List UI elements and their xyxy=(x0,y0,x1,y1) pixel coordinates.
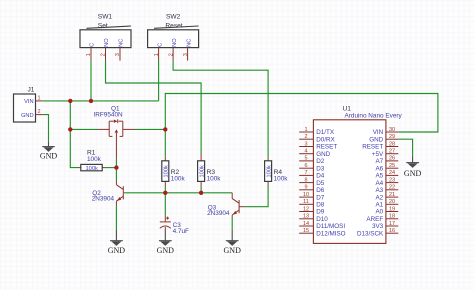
wire rail junction down to C3 xyxy=(164,193,166,215)
svg-text:Reset: Reset xyxy=(165,22,182,29)
svg-text:D12/MISO: D12/MISO xyxy=(316,230,345,237)
IC U1 Arduino Nano Every xyxy=(313,105,402,243)
svg-text:SW2: SW2 xyxy=(166,14,181,21)
svg-text:D9: D9 xyxy=(316,209,325,216)
svg-text:SW1: SW1 xyxy=(98,14,113,21)
svg-text:A5: A5 xyxy=(375,173,383,180)
svg-text:C: C xyxy=(90,43,96,47)
junction rail / R2 bottom / C3 xyxy=(163,191,167,195)
wire R2 bottom to rail xyxy=(164,187,166,193)
svg-text:1: 1 xyxy=(304,127,307,133)
svg-text:21: 21 xyxy=(389,192,395,198)
svg-text:16: 16 xyxy=(389,228,395,234)
svg-text:GND: GND xyxy=(108,246,126,255)
svg-text:2: 2 xyxy=(168,53,174,56)
junction R1 right / Q1 gate / Q2 collector xyxy=(114,165,118,169)
svg-text:26: 26 xyxy=(389,156,395,162)
wire J1 GND pin to ground xyxy=(43,115,49,142)
svg-text:23: 23 xyxy=(389,177,395,183)
svg-text:D2: D2 xyxy=(316,158,325,165)
svg-text:D10: D10 xyxy=(316,216,328,223)
switch SW2 xyxy=(148,14,199,48)
wire VIN rail junction down to Q1 source node xyxy=(69,101,71,129)
wire R4 bottom left to Q3 base xyxy=(245,187,269,207)
svg-text:C: C xyxy=(157,43,163,47)
svg-text:100k: 100k xyxy=(266,165,272,177)
U1 right pins 30-16 xyxy=(357,127,398,238)
wire VIN rail from J1 pin1 to SW2 pin1 drop xyxy=(43,100,159,102)
SW1 pin 3 xyxy=(115,48,121,61)
svg-text:D13/SCK: D13/SCK xyxy=(357,230,384,237)
svg-text:NO: NO xyxy=(104,38,110,47)
svg-text:4: 4 xyxy=(304,149,307,155)
wire R1 right to gate node xyxy=(105,167,117,169)
J1 pin 2 xyxy=(36,109,43,115)
resistor R2 100k xyxy=(162,157,186,187)
svg-text:22: 22 xyxy=(389,185,395,191)
svg-text:5: 5 xyxy=(304,156,307,162)
junction Q1 source / R1 branch xyxy=(68,127,72,131)
svg-text:100k: 100k xyxy=(199,165,205,177)
svg-text:A7: A7 xyxy=(375,158,383,165)
wire Q2 emitter to ground xyxy=(115,206,117,230)
svg-text:100k: 100k xyxy=(207,175,222,182)
svg-text:12: 12 xyxy=(303,206,309,212)
svg-text:VIN: VIN xyxy=(373,129,384,136)
svg-text:2N3904: 2N3904 xyxy=(92,196,115,203)
svg-text:NC: NC xyxy=(186,39,192,47)
SW2 pin 1 xyxy=(154,48,160,61)
svg-text:3: 3 xyxy=(115,53,121,56)
svg-text:D3: D3 xyxy=(316,165,325,172)
svg-text:8: 8 xyxy=(304,177,307,183)
svg-text:D6: D6 xyxy=(316,187,325,194)
SW1 pin 1 xyxy=(86,48,92,61)
SW2 pin 2 xyxy=(168,48,174,61)
transistor Q2 2N3904 xyxy=(92,181,124,206)
svg-text:100k: 100k xyxy=(164,165,170,177)
transistor Q3 2N3904 xyxy=(207,193,244,217)
wire Q3 emitter to ground xyxy=(231,217,233,230)
ground GND at J1 xyxy=(40,142,58,161)
svg-text:20: 20 xyxy=(389,199,395,205)
svg-text:J1: J1 xyxy=(28,87,35,94)
svg-text:29: 29 xyxy=(389,134,395,140)
svg-text:AREF: AREF xyxy=(366,216,383,223)
svg-text:D7: D7 xyxy=(316,194,325,201)
wire base rail Q2 to Q3 collector xyxy=(124,192,232,194)
svg-text:A0: A0 xyxy=(375,209,383,216)
svg-text:3: 3 xyxy=(304,141,307,147)
svg-text:VIN: VIN xyxy=(24,99,33,105)
svg-text:4.7uF: 4.7uF xyxy=(173,228,189,235)
ground GND at Q2 emitter xyxy=(108,230,126,255)
ground GND at C3 xyxy=(157,230,175,255)
svg-text:NO: NO xyxy=(172,38,178,47)
resistor R4 100k xyxy=(265,157,289,186)
svg-text:GND: GND xyxy=(224,246,242,255)
wire U1 GND pin 29 to ground xyxy=(398,139,412,156)
svg-text:D8: D8 xyxy=(316,202,325,209)
svg-text:28: 28 xyxy=(389,141,395,147)
svg-text:100k: 100k xyxy=(87,156,102,163)
svg-text:IRF9540N: IRF9540N xyxy=(94,112,124,119)
svg-text:14: 14 xyxy=(303,221,309,227)
svg-text:2N3904: 2N3904 xyxy=(207,210,230,217)
svg-text:A1: A1 xyxy=(375,202,383,209)
svg-text:100k: 100k xyxy=(86,166,98,172)
SW2 pin 3 xyxy=(183,48,189,61)
svg-text:Arduino Nano Every: Arduino Nano Every xyxy=(345,113,403,120)
svg-text:6: 6 xyxy=(304,163,307,169)
svg-text:D4: D4 xyxy=(316,173,325,180)
wire R2 top node up and right to U1 VIN pin 30 xyxy=(165,94,438,157)
junction VIN rail / SW1 pin1 xyxy=(89,99,93,103)
svg-text:25: 25 xyxy=(389,163,395,169)
svg-text:15: 15 xyxy=(303,228,309,234)
svg-text:GND: GND xyxy=(21,113,34,119)
ground GND at Q3 emitter xyxy=(224,230,242,255)
svg-text:D5: D5 xyxy=(316,180,325,187)
svg-text:Set: Set xyxy=(98,22,108,29)
svg-text:RESET: RESET xyxy=(316,144,337,151)
wire Q1 source node to R1 left xyxy=(70,128,98,130)
ground GND at U1 pin 29 xyxy=(404,156,422,178)
svg-text:100k: 100k xyxy=(171,175,186,182)
wire Q1 right to R2 top node xyxy=(135,128,165,130)
connector J1 xyxy=(14,87,36,123)
svg-text:GND: GND xyxy=(404,169,422,178)
svg-text:100k: 100k xyxy=(274,175,289,182)
svg-text:1: 1 xyxy=(38,96,41,102)
J1 pin 1 xyxy=(36,96,43,102)
svg-text:GND: GND xyxy=(316,151,330,158)
svg-text:19: 19 xyxy=(389,206,395,212)
SW1 pin 2 xyxy=(101,48,107,61)
junction VIN rail / down to Q1 source xyxy=(68,99,72,103)
svg-text:D1/TX: D1/TX xyxy=(316,129,335,136)
mosfet Q1 IRF9540N xyxy=(94,106,136,159)
svg-text:2: 2 xyxy=(38,109,41,115)
svg-text:A4: A4 xyxy=(375,180,383,187)
svg-text:D0/RX: D0/RX xyxy=(316,136,335,143)
svg-text:1: 1 xyxy=(86,53,92,56)
svg-text:24: 24 xyxy=(389,170,395,176)
wire R3 bottom to rail xyxy=(200,187,202,193)
wire SW1 pin1 to VIN rail xyxy=(90,61,92,101)
svg-text:2: 2 xyxy=(101,53,107,56)
svg-text:2: 2 xyxy=(304,134,307,140)
svg-text:3: 3 xyxy=(183,53,189,56)
svg-text:GND: GND xyxy=(40,152,58,161)
svg-text:11: 11 xyxy=(303,199,309,205)
svg-text:+5V: +5V xyxy=(372,151,384,158)
wire node down to R1 xyxy=(70,129,78,167)
junction Q1 drain / R2 top / U1 VIN xyxy=(163,127,167,131)
svg-text:RESET: RESET xyxy=(362,144,383,151)
capacitor C3 4.7uF xyxy=(160,215,189,235)
svg-text:9: 9 xyxy=(304,185,307,191)
svg-text:10: 10 xyxy=(303,192,309,198)
resistor R3 100k xyxy=(198,154,222,187)
resistor R1 100k xyxy=(79,150,105,172)
svg-text:A6: A6 xyxy=(375,165,383,172)
junction rail / R3 bottom xyxy=(199,191,203,195)
svg-text:1: 1 xyxy=(154,53,160,56)
svg-text:A3: A3 xyxy=(375,187,383,194)
svg-text:GND: GND xyxy=(157,246,175,255)
svg-text:D11/MOSI: D11/MOSI xyxy=(316,223,345,230)
svg-text:7: 7 xyxy=(304,170,307,176)
wire Q1 drain node vertical to Q2 collector xyxy=(115,159,117,181)
switch SW1 xyxy=(80,14,131,48)
svg-text:U1: U1 xyxy=(343,105,352,112)
svg-text:17: 17 xyxy=(389,221,395,227)
svg-text:3V3: 3V3 xyxy=(372,223,384,230)
svg-text:GND: GND xyxy=(369,136,383,143)
svg-text:27: 27 xyxy=(389,149,395,155)
svg-text:18: 18 xyxy=(389,214,395,220)
wire SW1 pin2 down right and down to R3 top xyxy=(106,61,202,154)
wire SW2 pin2 down right and down to R4 top xyxy=(173,61,268,158)
svg-text:13: 13 xyxy=(303,214,309,220)
wire SW2 pin1 drop to VIN rail xyxy=(158,61,160,101)
U1 left pins 1-15 xyxy=(299,127,345,238)
svg-text:NC: NC xyxy=(119,39,125,47)
svg-text:30: 30 xyxy=(389,127,395,133)
svg-text:A2: A2 xyxy=(375,194,383,201)
